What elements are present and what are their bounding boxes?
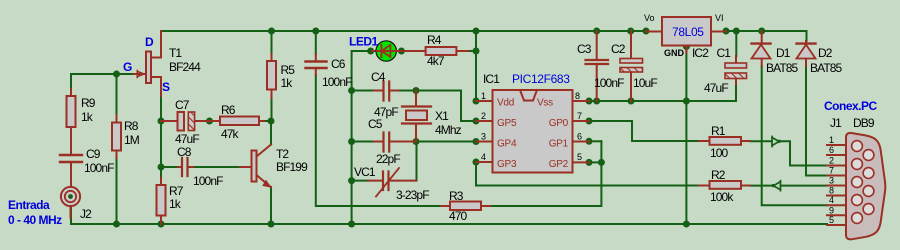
svg-text:5: 5 <box>577 152 582 162</box>
svg-text:22pF: 22pF <box>376 152 400 166</box>
svg-text:Conex.PC: Conex.PC <box>824 99 878 113</box>
svg-text:78L05: 78L05 <box>672 25 704 39</box>
svg-text:4Mhz: 4Mhz <box>435 123 462 137</box>
svg-text:8: 8 <box>575 91 580 101</box>
svg-text:PIC12F683: PIC12F683 <box>512 72 570 86</box>
resistor R3 <box>441 189 490 223</box>
junction dot R4 right <box>473 48 480 55</box>
wire bottom ground rail <box>71 206 827 225</box>
svg-text:D: D <box>145 35 154 49</box>
svg-text:VI: VI <box>715 13 724 23</box>
diode D2 BAT85 <box>797 41 843 75</box>
svg-text:C8: C8 <box>177 145 192 159</box>
svg-text:47k: 47k <box>221 127 240 141</box>
svg-text:GP0: GP0 <box>549 118 569 129</box>
svg-text:Vo: Vo <box>644 13 655 23</box>
junction dot C3 ground <box>593 98 600 105</box>
junction dot ground cross <box>683 98 690 105</box>
capacitor C9 <box>60 141 114 187</box>
junction dot rail C3 <box>593 28 600 35</box>
svg-text:D1: D1 <box>776 46 791 60</box>
wire D1 anode down to DB9 pin4 <box>762 66 827 205</box>
svg-text:R1: R1 <box>711 124 726 138</box>
wire VC1 right up to X1 bottom node <box>416 142 418 181</box>
svg-text:BF199: BF199 <box>276 160 308 174</box>
transistor T2 BF199 <box>240 145 308 188</box>
wire C5 row <box>352 141 374 143</box>
junction dot IC1 pin6 <box>586 138 593 145</box>
svg-text:6: 6 <box>577 132 582 142</box>
svg-text:C1: C1 <box>717 46 732 60</box>
capacitor C4 <box>371 70 398 119</box>
svg-text:BAT85: BAT85 <box>766 61 799 75</box>
wire R1 to direction marker to DB9 pin2 <box>750 141 827 165</box>
svg-text:4: 4 <box>829 195 834 205</box>
junction dot 78L05 GND pin <box>683 43 690 50</box>
junction dot C2 ground <box>628 98 635 105</box>
svg-text:100nF: 100nF <box>193 174 223 188</box>
svg-text:7: 7 <box>829 166 834 176</box>
resistor R9 <box>67 89 96 141</box>
svg-text:C9: C9 <box>86 147 101 161</box>
svg-text:C4: C4 <box>371 70 386 84</box>
junction dot IC1 pin3 <box>473 138 480 145</box>
junction dot rail R5 <box>268 28 275 35</box>
wire C7 node to R7 top <box>160 167 162 178</box>
junction dot VC1 column <box>348 177 355 184</box>
svg-text:R5: R5 <box>281 63 296 77</box>
svg-text:3: 3 <box>481 132 486 142</box>
svg-text:3: 3 <box>829 176 834 186</box>
resistor R4 <box>401 33 468 68</box>
capacitor C6 <box>306 54 353 89</box>
svg-text:C2: C2 <box>611 42 626 56</box>
capacitor C5 <box>368 117 416 166</box>
junction dot gate node <box>113 71 120 78</box>
junction dot LED right <box>398 48 405 55</box>
svg-text:GP2: GP2 <box>549 159 569 170</box>
capacitor C2 electrolytic <box>611 31 657 101</box>
svg-text:R2: R2 <box>711 168 726 182</box>
svg-text:VC1: VC1 <box>354 165 376 179</box>
IC1 PIC12F683 <box>476 72 589 173</box>
capacitor C1 electrolytic <box>704 46 747 95</box>
wire R2 to direction marker to DB9 pin3 <box>750 185 827 187</box>
wire GP0 pin to R1 <box>589 121 699 141</box>
wire +5V vertical to Vdd pin1 <box>475 31 477 101</box>
junction dot rail D1 <box>758 28 765 35</box>
wire VC1 left <box>352 180 368 182</box>
diode D1 BAT85 <box>752 31 799 75</box>
svg-text:100nF: 100nF <box>84 161 114 175</box>
junction dot IC1 pin1 <box>473 98 480 105</box>
resistor R5 <box>267 54 295 121</box>
svg-text:1: 1 <box>481 91 486 101</box>
svg-text:BF244: BF244 <box>169 60 201 74</box>
svg-text:IC2: IC2 <box>692 46 709 60</box>
svg-text:R4: R4 <box>427 33 442 47</box>
wire R8 bottom to ground rail <box>116 158 118 224</box>
junction dot T1 source C7 <box>158 118 165 125</box>
wire ground vertical from 78L05 GND to bottom rail <box>685 47 687 224</box>
svg-text:J2: J2 <box>80 207 92 221</box>
wire C1 top to VI rail <box>735 31 737 56</box>
svg-text:D2: D2 <box>818 46 833 60</box>
wire D2 anode down to DB9 pin7 <box>806 66 827 176</box>
wire LED left lead to oscillator ground column <box>352 51 372 224</box>
wire T2 emitter to ground rail <box>270 187 272 224</box>
wire C6 top from rail <box>315 31 317 54</box>
wire gate node down to R8 <box>116 74 118 115</box>
svg-text:J1: J1 <box>830 116 842 130</box>
svg-text:C6: C6 <box>331 57 346 71</box>
resistor R7 <box>157 178 184 224</box>
trimmer capacitor VC1 <box>354 165 429 202</box>
wire X1 bottom node to GP4 <box>416 141 476 143</box>
junction dot X1 top <box>413 87 420 94</box>
connector J1 DB9 <box>827 133 885 239</box>
svg-text:47uF: 47uF <box>704 81 728 95</box>
svg-text:8: 8 <box>829 186 834 196</box>
svg-text:100nF: 100nF <box>322 75 352 89</box>
svg-text:G: G <box>123 60 132 74</box>
svg-text:47uF: 47uF <box>175 132 199 146</box>
svg-text:R3: R3 <box>449 189 464 203</box>
LED1 <box>349 35 401 62</box>
wire gate node to R9 <box>71 74 134 89</box>
svg-text:0 - 40 MHz: 0 - 40 MHz <box>8 213 62 227</box>
svg-text:C5: C5 <box>368 117 383 131</box>
junction dot rail VI pin <box>723 28 730 35</box>
svg-text:S: S <box>162 80 170 94</box>
junction dot IC1 pin2 <box>473 118 480 125</box>
junction dot C4 column <box>348 87 355 94</box>
svg-text:3-23pF: 3-23pF <box>396 188 429 202</box>
junction dot rail C6 <box>312 28 319 35</box>
svg-text:2: 2 <box>481 111 486 121</box>
junction dot R7 bottom rail <box>158 221 165 228</box>
wire C1 bottom to ground bus <box>735 84 737 101</box>
resistor R2 <box>699 168 750 204</box>
wire VI top rail right of regulator <box>726 31 807 41</box>
wire GP1 pin to vertical <box>589 140 601 142</box>
junction dot R8 bottom rail <box>113 221 120 228</box>
junction dot rail C1 <box>733 28 740 35</box>
junction dot R7 top C8 <box>158 164 165 171</box>
svg-text:5: 5 <box>829 215 834 225</box>
svg-text:Vss: Vss <box>537 98 553 109</box>
junction dot IC1 pin7 <box>586 118 593 125</box>
wire R5 top from rail <box>271 31 273 54</box>
svg-text:T1: T1 <box>169 46 182 60</box>
svg-text:100k: 100k <box>710 190 734 204</box>
junction dot LED left <box>367 48 374 55</box>
capacitor C3 <box>577 31 624 101</box>
svg-text:9: 9 <box>829 205 834 215</box>
junction dot C7 right R6 <box>206 118 213 125</box>
svg-text:100: 100 <box>710 146 729 160</box>
svg-text:470: 470 <box>449 209 468 223</box>
resistor R1 <box>699 124 750 160</box>
svg-text:R6: R6 <box>221 103 236 117</box>
junction dot T2 collector node <box>268 118 275 125</box>
svg-text:BAT85: BAT85 <box>810 61 843 75</box>
svg-text:GND: GND <box>664 48 685 58</box>
svg-text:1M: 1M <box>124 133 140 147</box>
svg-text:4: 4 <box>481 152 486 162</box>
svg-text:GP3: GP3 <box>497 159 517 170</box>
capacitor C8 <box>161 145 223 188</box>
svg-text:Vdd: Vdd <box>497 98 514 109</box>
junction dot T2 emitter rail <box>268 221 275 228</box>
svg-text:GP5: GP5 <box>497 118 517 129</box>
svg-text:1k: 1k <box>81 110 94 124</box>
wire T1 source down to C7 node <box>160 96 162 167</box>
junction dot GP1-GP2 tie <box>598 159 605 166</box>
junction dot rail Vo pin <box>643 28 650 35</box>
connector J2 input <box>61 187 92 221</box>
svg-text:GP1: GP1 <box>549 139 569 150</box>
svg-text:1: 1 <box>829 135 834 145</box>
junction dot IC1 pin8 <box>586 98 593 105</box>
wire GP2 pin to vertical <box>589 161 601 163</box>
svg-text:R8: R8 <box>124 119 139 133</box>
svg-text:7: 7 <box>577 111 582 121</box>
svg-text:R7: R7 <box>169 184 184 198</box>
regulator IC2 78L05 <box>644 13 726 60</box>
junction dot IC1 pin4 <box>473 159 480 166</box>
wire C8 to T2 base <box>193 166 240 168</box>
junction dot osc column rail <box>348 221 355 228</box>
wire C6 bottom long run to R3 <box>316 75 441 206</box>
svg-text:IC1: IC1 <box>483 72 500 86</box>
svg-text:C3: C3 <box>577 42 592 56</box>
wire R4 right to Vdd vertical <box>468 50 476 52</box>
wire R5 bottom / R6 right / T2 collector node <box>264 121 271 128</box>
svg-text:X1: X1 <box>435 109 449 123</box>
wire GP3 pin down and right to R2 <box>476 162 699 186</box>
junction dot ground vertical rail <box>683 221 690 228</box>
svg-text:2: 2 <box>829 156 834 166</box>
wire R3 right to GP1/GP2 node <box>490 141 601 206</box>
svg-text:DB9: DB9 <box>853 116 875 130</box>
svg-text:1k: 1k <box>281 76 294 90</box>
crystal X1 4MHz <box>402 91 462 142</box>
direction marker arrow right (to PC RX) <box>772 137 779 147</box>
svg-text:GP4: GP4 <box>497 139 517 150</box>
wire C4 row <box>352 90 374 92</box>
svg-text:100nF: 100nF <box>594 76 624 90</box>
capacitor C7 electrolytic <box>161 98 210 146</box>
svg-text:Entrada: Entrada <box>8 198 50 212</box>
svg-text:C7: C7 <box>175 98 190 112</box>
svg-text:LED1: LED1 <box>349 35 379 49</box>
svg-text:R9: R9 <box>81 96 96 110</box>
wire X1 top to GP5 <box>398 91 476 122</box>
junction dot rail Vdd vertical <box>473 28 480 35</box>
svg-text:6: 6 <box>829 145 834 155</box>
junction dot C5 column <box>348 138 355 145</box>
svg-text:4k7: 4k7 <box>427 54 445 68</box>
svg-text:T2: T2 <box>276 147 289 161</box>
resistor R6 <box>210 103 265 141</box>
junction dot rail C2 <box>627 28 634 35</box>
wire ground bus horizontal (Vss net) <box>589 100 736 102</box>
wire T2 collector vertical <box>270 121 272 145</box>
svg-text:1k: 1k <box>169 197 182 211</box>
transistor T1 BF244 JFET <box>123 31 201 96</box>
junction dot X1 bottom <box>413 138 420 145</box>
direction marker arrow left (from PC TX) <box>774 181 781 191</box>
svg-text:10uF: 10uF <box>633 76 657 90</box>
wire +5V top rail <box>161 30 646 32</box>
junction dot IC1 pin5 <box>586 159 593 166</box>
resistor R8 <box>112 115 140 158</box>
